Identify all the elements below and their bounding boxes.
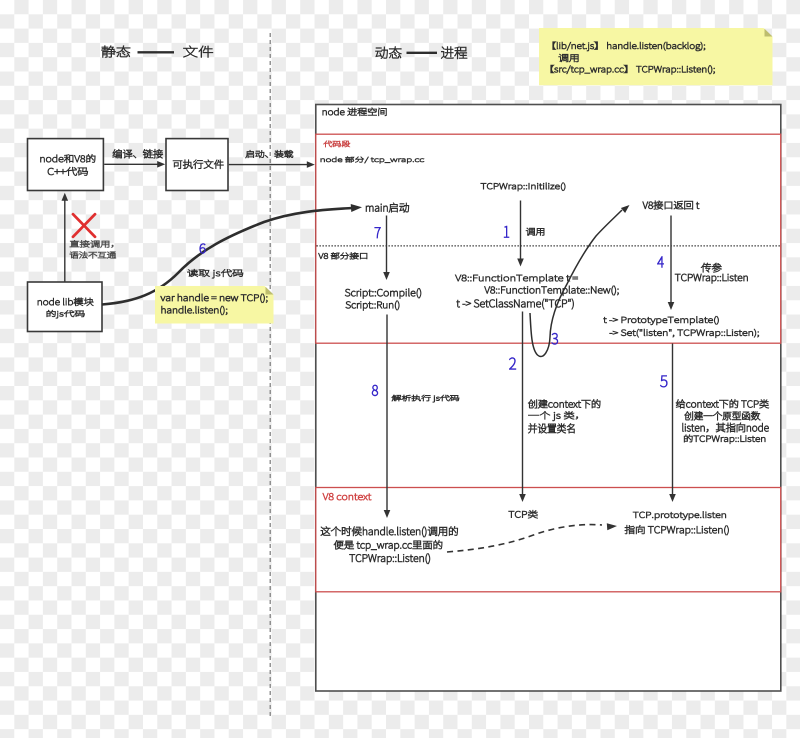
title: static [102,46,131,58]
arrow 4: t to prototype [668,216,675,311]
label: call [526,228,544,236]
dotted divider V8 interface [317,245,781,247]
header: node process space [323,108,387,116]
label: V8 returns t [643,201,700,210]
arrow 7: main down [383,216,390,281]
title dash static [138,51,175,53]
label: code segment [324,141,350,147]
label: create context line3 [528,424,574,434]
text: node V8 line2 [48,167,88,175]
label: Script Compile [345,288,421,298]
label: FunctionTemplate line1 [455,274,577,283]
box: node and V8 C++ code [28,139,104,191]
label: V8 interface part [319,253,368,260]
label: 1 [504,226,509,237]
label: 2 [509,358,515,370]
label: FunctionTemplate line3 [457,299,574,309]
text: node lib line2 [47,310,85,318]
label: Script Run [346,301,399,311]
box: node lib js code [28,282,103,332]
node process space box [316,105,781,692]
dashed curve: points to prototype listen [447,523,617,552]
label: 5 [660,376,667,388]
dashed separator line [269,33,271,718]
label: at this time line3 [350,554,430,565]
label: TCPWrap Listen param [675,274,748,283]
label: parse execute js [392,395,459,402]
label: give context line1 [676,399,768,408]
red X incompatible mark [73,214,95,237]
label: compile link [113,149,163,158]
label: 7 [375,227,381,238]
title dash dynamic [407,52,438,54]
label: 3 [552,333,558,344]
text: node lib line1 [38,298,94,306]
label: FunctionTemplate line2 [485,286,619,296]
label: create context line2 [528,411,577,420]
note line2 [559,54,579,62]
arrow 1: initilize call [517,201,524,267]
label: give context line3 [683,423,769,432]
thick curve: read js code [102,204,362,305]
text: var handle line1 [161,294,268,303]
red code segment region [316,134,781,343]
label: TCPWrap Initilize [481,183,565,191]
label: V8 context [323,493,371,500]
text: var handle line2 [162,306,228,315]
label: TCP class [509,510,538,518]
label: PrototypeTemplate line1 [604,316,719,325]
arrow: js to c++ up [62,193,69,282]
label: points to TCPWrap Listen [625,525,729,535]
curve 3: loop up to V8 returns t [530,205,630,356]
arrow 5: listen proto [669,344,676,503]
arrow 2: create class [519,312,526,503]
box: executable file [166,139,228,191]
label: direct call line1 [70,240,113,247]
label: give context line2 [685,411,760,420]
label: start load [246,150,293,157]
title: files [183,46,213,58]
label: PrototypeTemplate line2 [610,329,759,338]
text: executable file [173,160,223,169]
label: 8 [372,385,378,396]
label: pass param [701,263,721,272]
label: read js code [187,269,243,278]
text: node V8 line1 [41,154,96,162]
arrow 8: parse js [384,315,391,519]
arrow: start load [229,161,315,168]
note line3 [551,65,715,74]
label: direct call line2 [70,252,116,259]
note line1 [553,42,705,51]
title: process [441,47,467,59]
label: node part tcp_wrap [321,157,424,164]
label: give context line4 [684,435,765,444]
yellow note: var handle [155,286,274,324]
title: dynamic [376,47,402,59]
label: 4 [657,257,663,268]
label: 6 [200,244,206,254]
red V8 context region [316,488,781,592]
label: main start [366,203,409,212]
arrow: compile link [104,161,165,168]
label: at this time line2 [334,540,442,551]
label: at this time line1 [321,526,458,537]
label: TCP prototype listen [633,511,726,519]
yellow sticky note [539,28,773,85]
label: create context line1 [528,399,600,408]
